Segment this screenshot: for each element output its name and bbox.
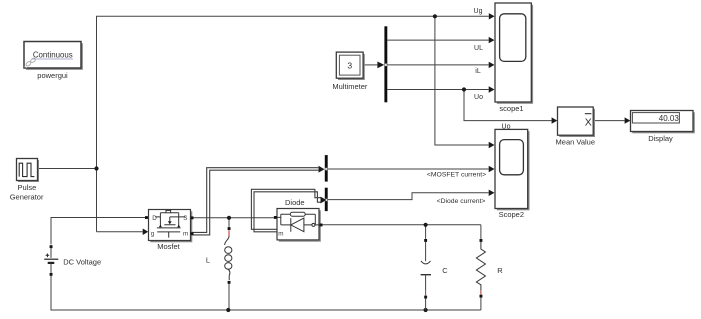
svg-text:L: L <box>206 256 210 265</box>
svg-text:<MOSFET current>: <MOSFET current> <box>427 171 486 178</box>
svg-text:C: C <box>442 266 448 275</box>
svg-text:Display: Display <box>648 134 673 143</box>
svg-text:40.03: 40.03 <box>659 114 680 123</box>
svg-text:Continuous: Continuous <box>33 50 73 59</box>
svg-text:Mean Value: Mean Value <box>556 137 595 146</box>
svg-text:S: S <box>183 215 187 222</box>
svg-text:Uo: Uo <box>502 123 511 130</box>
svg-text:powergui: powergui <box>37 71 68 80</box>
svg-text:g: g <box>151 231 155 238</box>
svg-text:Pulse: Pulse <box>18 183 37 192</box>
svg-text:DC Voltage: DC Voltage <box>63 258 101 267</box>
svg-text:m: m <box>278 230 283 237</box>
svg-text:iL: iL <box>475 68 481 75</box>
svg-text:X: X <box>585 116 592 128</box>
svg-text:Multimeter: Multimeter <box>332 82 368 91</box>
svg-text:Ug: Ug <box>474 8 483 15</box>
svg-text:Uo: Uo <box>474 94 483 101</box>
svg-text:R: R <box>497 266 503 275</box>
svg-text:scope1: scope1 <box>499 104 523 113</box>
svg-text:Scope2: Scope2 <box>499 210 524 219</box>
svg-text:Generator: Generator <box>10 193 44 202</box>
svg-text:D: D <box>152 215 157 222</box>
svg-text:Diode: Diode <box>285 198 305 207</box>
svg-text:UL: UL <box>474 45 483 52</box>
svg-text:Mosfet: Mosfet <box>157 242 180 251</box>
svg-text:<Diode current>: <Diode current> <box>437 198 486 205</box>
svg-text:m: m <box>183 231 188 238</box>
svg-text:3: 3 <box>347 61 352 71</box>
